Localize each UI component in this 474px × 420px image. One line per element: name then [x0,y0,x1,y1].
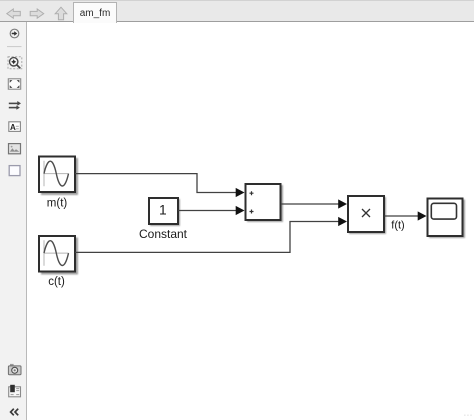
toolbar separator [7,46,22,48]
svg-text:1: 1 [159,202,167,217]
top tab strip bar [0,0,474,22]
nav forward arrow [30,9,44,18]
left toolbar background [0,22,27,420]
nav back arrow [7,9,20,18]
block Constant [149,198,178,224]
block Sine Wave m(t) shadow [41,158,78,195]
wire Constant to Sum input 2 [178,206,245,215]
block Product [348,196,384,232]
wire Product to Scope [385,211,427,220]
toolbar icon: image [9,144,21,154]
toolbar icon: light square [9,166,20,176]
block Sum [246,184,281,220]
toolbar icon: double right arrows [9,101,21,110]
svg-text:A: A [10,123,16,132]
svg-text:c(t): c(t) [48,276,65,288]
toolbar icon: fit to view [8,79,20,89]
faint watermark [464,413,473,419]
toolbar icon: camera [8,364,21,375]
toolbar icon: zoom magnifier [8,57,22,69]
toolbar icon: collapse chevrons [11,409,19,416]
wire c(t) to Product input 2 [75,217,347,253]
nav up arrow [55,7,67,20]
block Product shadow [349,197,386,234]
block Scope shadow [429,200,465,239]
block Sine Wave c(t) shadow [41,238,78,275]
block Constant shadow [150,199,180,226]
svg-text:Constant: Constant [139,227,188,241]
wire Sum to Product input 1 [281,199,347,208]
svg-text:f(t): f(t) [391,220,404,232]
block Sine Wave c(t) [39,236,75,272]
tab am_fm [73,2,117,23]
toolbar icon: hide browser circle-arrow [10,29,19,38]
wire m(t) to Sum input 1 [75,174,245,198]
svg-text:m(t): m(t) [47,198,68,210]
block Sum shadow [247,185,283,222]
block Sine Wave m(t) [39,157,75,193]
toolbar icon: panel layout [9,385,21,397]
block Scope [428,199,463,237]
toolbar icon: annotation A [9,122,21,132]
